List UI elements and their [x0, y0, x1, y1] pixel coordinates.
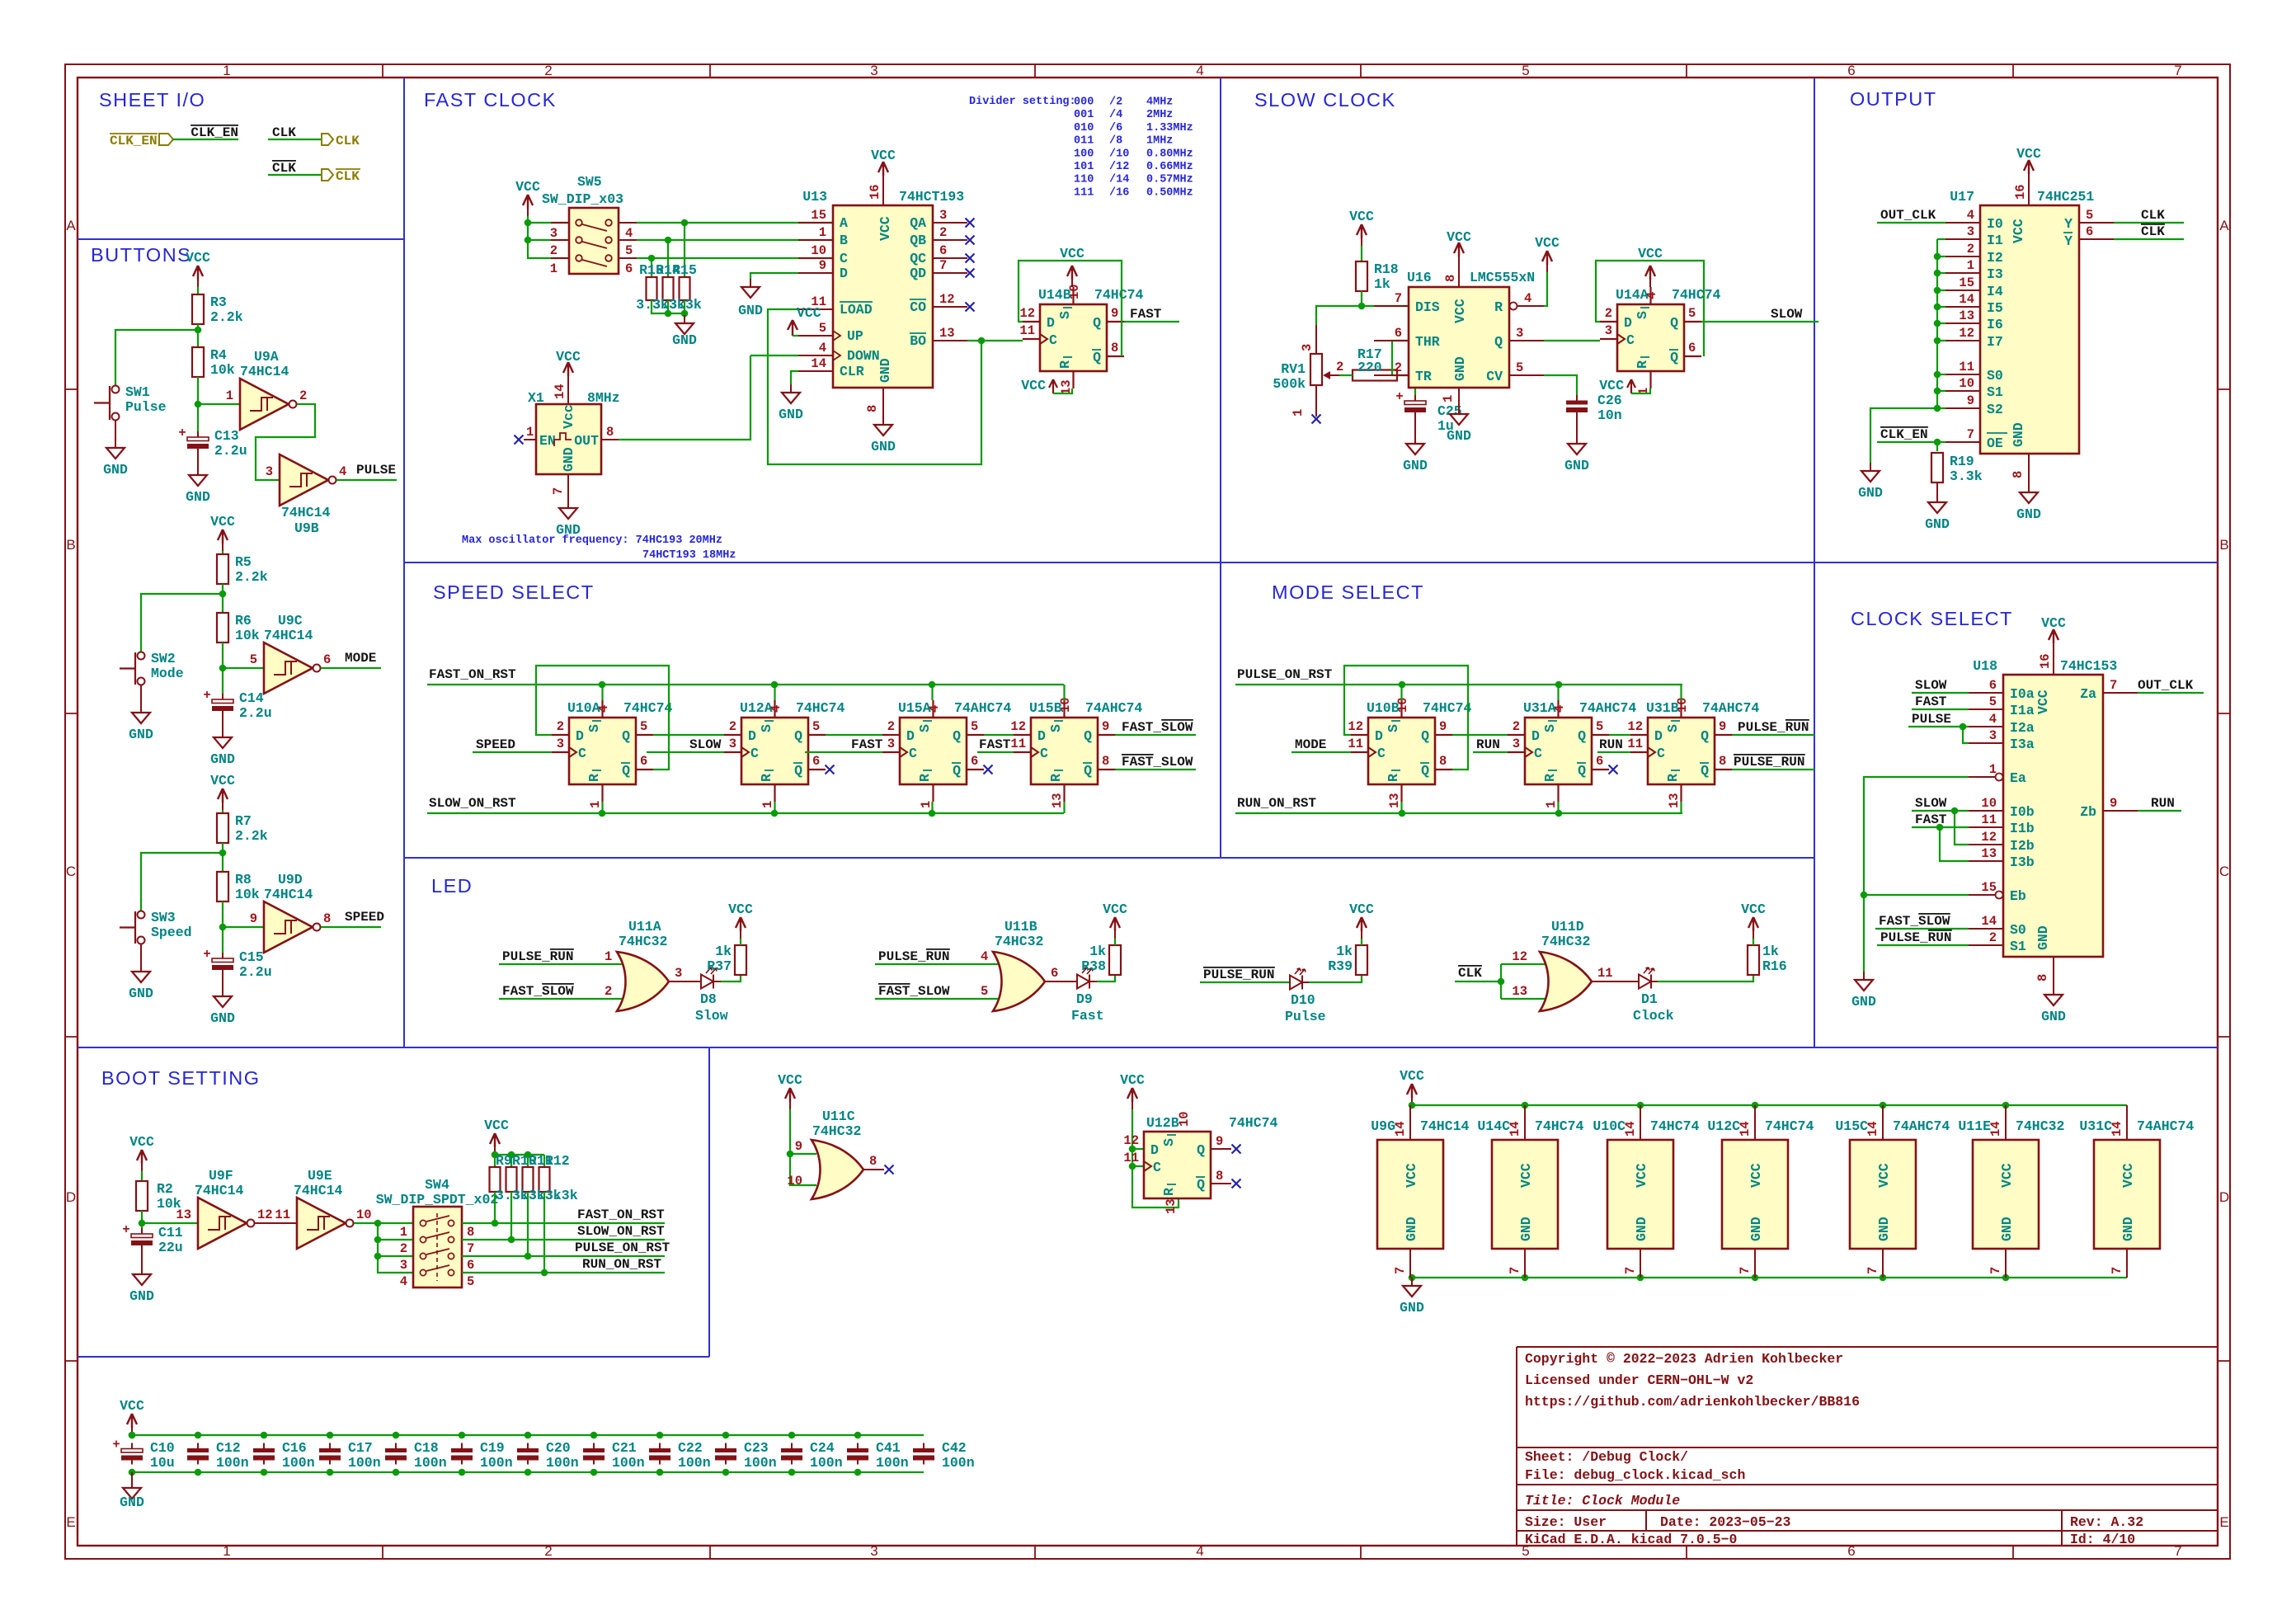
- svg-text:8: 8: [2035, 974, 2050, 981]
- svg-text:2.2k: 2.2k: [235, 828, 268, 844]
- title block frame: [1517, 1347, 2218, 1546]
- svg-text:OUT_CLK: OUT_CLK: [2138, 678, 2194, 693]
- svg-text:R3: R3: [210, 294, 227, 310]
- svg-text:9: 9: [1967, 393, 1974, 408]
- svg-text:74HCT193: 74HCT193: [899, 189, 964, 205]
- flip-flop U31B 74AHC74: [1648, 718, 1715, 784]
- svg-text:7: 7: [2110, 1267, 2124, 1274]
- svg-text:CO: CO: [910, 299, 926, 315]
- svg-text:I1b: I1b: [2010, 821, 2035, 836]
- svg-text:SPEED: SPEED: [476, 737, 515, 752]
- switch SW3 Speed: [138, 911, 145, 919]
- svg-text:74HC74: 74HC74: [796, 700, 845, 716]
- svg-text:CLK_EN: CLK_EN: [110, 134, 158, 148]
- svg-text:6: 6: [323, 652, 331, 667]
- svg-text:4: 4: [1196, 1543, 1203, 1559]
- X1 square wave glyph: [554, 433, 572, 446]
- svg-text:C: C: [1657, 746, 1665, 761]
- wire R17 to TR node: [1339, 374, 1353, 376]
- svg-text:Q: Q: [1197, 1177, 1205, 1193]
- svg-text:9: 9: [1719, 719, 1726, 734]
- svg-text:6: 6: [2086, 224, 2093, 239]
- svg-text:https://github.com/adrienkohlb: https://github.com/adrienkohlbecker/BB81…: [1525, 1394, 1860, 1410]
- svg-text:R5: R5: [235, 554, 252, 570]
- wire node to U9F input: [142, 1222, 198, 1224]
- svg-text:SW_DIP_SPDT_x02: SW_DIP_SPDT_x02: [376, 1192, 499, 1207]
- svg-text:Q: Q: [1670, 315, 1678, 331]
- svg-text:VCC: VCC: [1349, 209, 1374, 224]
- svg-text:12: 12: [1981, 830, 1997, 845]
- svg-text:PULSE_RUN: PULSE_RUN: [878, 949, 949, 964]
- svg-text:U10A: U10A: [567, 700, 600, 716]
- svg-text:C26: C26: [1597, 393, 1622, 408]
- svg-text:D: D: [840, 266, 848, 281]
- svg-text:4: 4: [1989, 712, 1997, 727]
- svg-text:/4: /4: [1109, 109, 1122, 121]
- svg-text:RUN: RUN: [1476, 737, 1500, 752]
- svg-text:R15: R15: [672, 262, 697, 278]
- svg-text:MODE SELECT: MODE SELECT: [1272, 581, 1424, 603]
- inverter U9E 74HC14: [297, 1198, 346, 1249]
- svg-text:3: 3: [870, 63, 877, 78]
- svg-text:C42: C42: [942, 1440, 967, 1456]
- IC U13 74HCT193 body: [833, 205, 933, 388]
- svg-text:Divider setting:: Divider setting:: [969, 96, 1076, 108]
- svg-text:VCC: VCC: [1638, 246, 1663, 261]
- svg-text:1k: 1k: [1762, 944, 1779, 959]
- svg-text:8: 8: [1102, 754, 1109, 769]
- wire SW5.4 to U13.A: [637, 222, 833, 224]
- svg-text:5: 5: [1688, 306, 1696, 321]
- wire U31A.Q to U31B.D: [1609, 734, 1630, 736]
- svg-text:I5: I5: [1987, 300, 2003, 316]
- ground at S2 bus: [1870, 463, 1871, 471]
- wire U9F out to U9E in: [255, 1222, 297, 1224]
- svg-text:3: 3: [1605, 323, 1612, 338]
- wire U9D output SPEED: [321, 926, 381, 928]
- svg-text:I2a: I2a: [2010, 720, 2035, 736]
- svg-text:FAST_SLOW: FAST_SLOW: [502, 984, 574, 999]
- svg-text:U12C: U12C: [1707, 1118, 1740, 1134]
- svg-text:8: 8: [323, 911, 331, 926]
- svg-text:C19: C19: [480, 1440, 505, 1456]
- U16 pin stubs: [1374, 305, 1409, 307]
- U17 left pins: [1945, 222, 1980, 224]
- svg-text:DIS: DIS: [1415, 299, 1440, 315]
- svg-text:74HC14: 74HC14: [264, 628, 313, 643]
- resistor R19: [1936, 442, 1938, 451]
- svg-text:74HC14: 74HC14: [240, 364, 289, 379]
- svg-text:11: 11: [1597, 966, 1613, 981]
- wire U14B.Q FAST: [1124, 321, 1179, 322]
- svg-text:Q: Q: [1701, 728, 1709, 744]
- svg-text:QB: QB: [910, 233, 926, 248]
- power unit U11E 74HC32: [1973, 1140, 2039, 1249]
- svg-text:GND: GND: [129, 1288, 154, 1304]
- svg-text:VCC: VCC: [210, 773, 235, 788]
- svg-text:U12A: U12A: [740, 700, 773, 716]
- svg-text:7: 7: [2174, 63, 2181, 78]
- svg-text:R: R: [1057, 360, 1073, 369]
- svg-text:6: 6: [1847, 63, 1855, 78]
- wire U18.Za OUT_CLK: [2138, 692, 2204, 694]
- svg-text:74HC74: 74HC74: [623, 700, 673, 716]
- wire U15B.Qbar ~FAST_SLOW: [1115, 769, 1196, 770]
- svg-text:QC: QC: [910, 251, 926, 266]
- flip-flop U10B 74HC74: [1368, 718, 1435, 784]
- power VCC at U13.UP: [788, 320, 797, 336]
- svg-text:9: 9: [2110, 796, 2117, 811]
- svg-text:14: 14: [553, 384, 567, 399]
- svg-text:C: C: [1626, 332, 1635, 348]
- svg-text:7: 7: [551, 487, 566, 495]
- svg-text:9: 9: [1216, 1134, 1223, 1149]
- SW5 pin stubs: [551, 222, 569, 224]
- wire U10A.Q to U12A.D: [653, 734, 724, 736]
- svg-text:CLR: CLR: [840, 364, 864, 379]
- svg-text:8: 8: [467, 1225, 474, 1240]
- svg-text:R39: R39: [1328, 958, 1353, 974]
- svg-text:CLK: CLK: [336, 134, 360, 148]
- svg-text:Licensed under CERN−OHL−W v2: Licensed under CERN−OHL−W v2: [1525, 1372, 1753, 1388]
- svg-text:D: D: [906, 728, 915, 744]
- svg-text:15: 15: [811, 208, 826, 223]
- svg-text:VCC: VCC: [778, 1072, 802, 1088]
- wire U9E out to SW4 bus: [354, 1222, 413, 1224]
- svg-text:RUN_ON_RST: RUN_ON_RST: [582, 1257, 661, 1272]
- power VCC above U14A: [1649, 280, 1651, 287]
- svg-text:U31A: U31A: [1523, 700, 1556, 716]
- power VCC above R9-R12: [494, 1147, 496, 1155]
- svg-text:Pulse: Pulse: [1285, 1009, 1326, 1024]
- svg-text:1: 1: [223, 1543, 230, 1559]
- wire U17.Ybar CLKbar: [2114, 238, 2184, 240]
- svg-text:S2: S2: [1987, 402, 2003, 417]
- wire X1.OUT to U13.DOWN: [619, 355, 750, 440]
- svg-text:RUN: RUN: [2151, 796, 2175, 811]
- U12A Qbar no-connect: [826, 765, 835, 774]
- svg-text:I0b: I0b: [2010, 804, 2035, 820]
- svg-text:12: 12: [1348, 719, 1363, 734]
- svg-text:RV1: RV1: [1281, 361, 1306, 377]
- power VCC above U12B: [1132, 1102, 1133, 1109]
- svg-text:100n: 100n: [282, 1455, 315, 1471]
- svg-text:Speed: Speed: [151, 925, 192, 940]
- svg-text:Sheet: /Debug Clock/: Sheet: /Debug Clock/: [1525, 1449, 1688, 1465]
- svg-text:CLK: CLK: [2141, 208, 2165, 223]
- svg-text:Size: User: Size: User: [1525, 1514, 1607, 1530]
- svg-text:BO: BO: [910, 333, 926, 349]
- svg-text:C: C: [909, 746, 917, 761]
- svg-text:SLOW_ON_RST: SLOW_ON_RST: [577, 1224, 665, 1239]
- svg-text:74HC74: 74HC74: [1765, 1118, 1814, 1134]
- svg-text:5: 5: [819, 321, 826, 336]
- svg-text:0.57MHz: 0.57MHz: [1146, 174, 1193, 186]
- power VCC at U14B reset: [1049, 379, 1057, 393]
- svg-text:FAST_SLOW: FAST_SLOW: [878, 984, 950, 999]
- svg-text:I2b: I2b: [2010, 838, 2035, 854]
- svg-text:Eb: Eb: [2010, 888, 2026, 904]
- svg-text:D: D: [2219, 1189, 2229, 1205]
- resistor R15: [684, 223, 685, 277]
- svg-text:5: 5: [467, 1274, 474, 1289]
- svg-text:3: 3: [1989, 728, 1997, 743]
- svg-text:U16: U16: [1407, 270, 1432, 285]
- power VCC at U14A reset: [1627, 379, 1635, 393]
- svg-text:C: C: [1377, 746, 1386, 761]
- svg-text:5: 5: [981, 984, 988, 999]
- svg-text:5: 5: [625, 243, 633, 258]
- svg-text:PULSE_ON_RST: PULSE_ON_RST: [575, 1240, 670, 1255]
- U13 right pin stubs: [933, 222, 967, 224]
- svg-text:R: R: [586, 774, 602, 782]
- svg-text:6: 6: [939, 243, 947, 258]
- svg-text:VCC: VCC: [2011, 219, 2026, 243]
- svg-text:11: 11: [275, 1207, 290, 1222]
- svg-text:16: 16: [868, 184, 882, 200]
- svg-text:C21: C21: [612, 1440, 637, 1456]
- wire RUN_ON_RST bus: [1235, 812, 1682, 814]
- svg-text:PULSE_RUN: PULSE_RUN: [1734, 755, 1804, 770]
- U17 VCC pin 16 top: [2028, 181, 2030, 205]
- svg-text:SW1: SW1: [125, 384, 150, 400]
- svg-text:C13: C13: [214, 428, 239, 444]
- svg-text:100n: 100n: [612, 1455, 645, 1471]
- svg-text:3: 3: [1513, 737, 1520, 751]
- svg-text:+: +: [203, 688, 210, 703]
- wire U13.D to GND: [750, 273, 798, 279]
- power VCC above U14B: [1071, 280, 1073, 287]
- wire CLK: [268, 139, 322, 140]
- wire R13-R15 bottoms to GND: [652, 300, 685, 313]
- svg-text:B: B: [2219, 537, 2228, 553]
- svg-text:10: 10: [1959, 376, 1974, 391]
- svg-text:10: 10: [811, 243, 826, 258]
- X1 GND pin 7 bottom: [567, 474, 569, 500]
- svg-text:D: D: [1654, 728, 1663, 744]
- svg-text:1: 1: [400, 1225, 407, 1240]
- svg-text:R19: R19: [1950, 454, 1974, 469]
- svg-text:D: D: [1624, 315, 1632, 331]
- svg-text:100n: 100n: [942, 1455, 975, 1471]
- svg-text:VCC: VCC: [1103, 901, 1127, 917]
- svg-text:U9B: U9B: [294, 520, 319, 536]
- wire R3 to R4 node: [197, 324, 199, 351]
- svg-text:Q: Q: [1084, 763, 1092, 779]
- wire node to SW1: [115, 330, 198, 385]
- U12B Q/Qbar no-connects: [1211, 1148, 1231, 1150]
- power VCC above R16: [1753, 939, 1754, 945]
- svg-text:8: 8: [869, 1154, 877, 1169]
- svg-text:5: 5: [250, 652, 257, 667]
- ground at U13.D: [750, 279, 751, 287]
- svg-text:74HC14: 74HC14: [195, 1183, 244, 1198]
- svg-text:5: 5: [812, 719, 820, 734]
- svg-text:74HC14: 74HC14: [281, 505, 331, 520]
- U11C output no-connect: [863, 1169, 884, 1170]
- ground below C26: [1576, 417, 1578, 435]
- IC U18 74HC153 body: [2003, 675, 2103, 957]
- ground at power pins row: [1411, 1278, 1413, 1286]
- flip-flop U12A 74HC74: [741, 718, 808, 784]
- svg-text:2: 2: [1605, 306, 1612, 321]
- svg-text:2: 2: [1336, 360, 1343, 374]
- svg-text:CLK: CLK: [1458, 966, 1482, 981]
- svg-text:3: 3: [400, 1258, 407, 1273]
- wire S2 to GND: [1870, 408, 1937, 463]
- svg-text:VCC: VCC: [1634, 1163, 1649, 1188]
- svg-text:U11B: U11B: [1004, 919, 1037, 934]
- svg-text:C41: C41: [876, 1440, 901, 1456]
- wire D10 to R39: [1302, 981, 1309, 983]
- svg-text:D: D: [66, 1189, 76, 1205]
- OR gate U11A 74HC32: [617, 952, 669, 1011]
- svg-text:2: 2: [605, 984, 612, 999]
- svg-text:Q: Q: [1093, 350, 1101, 365]
- svg-text:74HC251: 74HC251: [2037, 189, 2094, 205]
- svg-text:GND: GND: [1858, 485, 1883, 501]
- svg-text:12: 12: [257, 1207, 273, 1222]
- wire U13.DOWN from X1.OUT: [750, 355, 798, 356]
- svg-text:1: 1: [226, 388, 233, 403]
- svg-text:PULSE: PULSE: [1912, 712, 1951, 727]
- svg-text:RUN_ON_RST: RUN_ON_RST: [1237, 796, 1316, 811]
- svg-text:CLK: CLK: [272, 125, 296, 140]
- svg-text:74HC32: 74HC32: [1541, 934, 1590, 949]
- svg-text:3: 3: [1967, 224, 1974, 239]
- svg-text:2.2u: 2.2u: [239, 705, 272, 721]
- svg-text:I3: I3: [1987, 266, 2003, 282]
- svg-text:BUTTONS: BUTTONS: [91, 244, 191, 266]
- svg-text:74AHC74: 74AHC74: [954, 700, 1011, 716]
- svg-text:KiCad E.D.A. kicad 7.0.5−0: KiCad E.D.A. kicad 7.0.5−0: [1525, 1532, 1737, 1547]
- OR gate U11D 74HC32: [1540, 952, 1592, 1011]
- wire VCC bus for power pins: [1412, 1104, 2127, 1106]
- capacitor C41: [857, 1443, 859, 1449]
- SW4 input bus wire: [378, 1223, 413, 1273]
- svg-text:VCC: VCC: [1518, 1163, 1534, 1188]
- svg-text:CLK: CLK: [336, 169, 360, 184]
- svg-text:10: 10: [1981, 796, 1997, 811]
- svg-text:R6: R6: [235, 613, 252, 628]
- svg-text:2.2k: 2.2k: [210, 309, 243, 325]
- svg-text:5: 5: [1516, 360, 1523, 375]
- svg-text:0.80MHz: 0.80MHz: [1146, 148, 1193, 160]
- svg-text:Ea: Ea: [2010, 770, 2026, 786]
- ground below C10: [131, 1472, 133, 1480]
- svg-text:100n: 100n: [876, 1455, 909, 1471]
- svg-text:D: D: [1375, 728, 1383, 744]
- svg-text:SW2: SW2: [151, 651, 176, 666]
- svg-text:74HC14: 74HC14: [294, 1183, 343, 1198]
- svg-text:U13: U13: [802, 189, 827, 205]
- svg-text:1: 1: [223, 63, 230, 78]
- X1 VCC pin 14 top: [567, 384, 569, 404]
- svg-text:R37: R37: [707, 958, 732, 974]
- svg-text:11: 11: [1348, 737, 1363, 751]
- U13 VCC pin 16 top: [882, 183, 884, 205]
- svg-text:R: R: [1048, 774, 1064, 782]
- power unit U31C 74AHC74: [2094, 1140, 2160, 1249]
- svg-text:GND: GND: [738, 303, 763, 318]
- svg-text:FAST: FAST: [979, 737, 1011, 752]
- svg-text:GND: GND: [1634, 1217, 1649, 1241]
- svg-text:11: 11: [1627, 737, 1643, 751]
- svg-text:Q: Q: [1197, 1142, 1205, 1158]
- power unit U9G 74HC14: [1377, 1140, 1443, 1249]
- svg-text:2.2u: 2.2u: [214, 443, 247, 459]
- ground below SW2: [140, 685, 142, 704]
- svg-text:7: 7: [1395, 291, 1402, 306]
- svg-text:GND: GND: [210, 751, 235, 767]
- svg-text:2: 2: [400, 1241, 407, 1256]
- svg-text:E: E: [2219, 1514, 2228, 1530]
- svg-text:4MHz: 4MHz: [1146, 96, 1173, 109]
- wire U11A output to D8: [669, 981, 700, 982]
- svg-text:GND: GND: [1400, 1300, 1424, 1316]
- svg-text:11: 11: [1010, 737, 1026, 751]
- svg-text:3: 3: [557, 737, 564, 751]
- svg-text:VCC: VCC: [1447, 229, 1471, 245]
- svg-text:S1: S1: [1987, 384, 2003, 400]
- svg-text:13: 13: [1981, 846, 1997, 861]
- wire U16.R to VCC: [1544, 272, 1547, 306]
- power VCC for R7: [222, 803, 223, 810]
- svg-text:13: 13: [1164, 1198, 1179, 1214]
- svg-text:1: 1: [919, 801, 934, 808]
- svg-text:LED: LED: [431, 875, 473, 897]
- svg-text:VCC: VCC: [120, 1398, 144, 1414]
- svg-text:VCC: VCC: [728, 901, 753, 917]
- svg-text:Fast: Fast: [1071, 1008, 1104, 1024]
- wire U14A.Q SLOW: [1701, 321, 1818, 322]
- svg-text:PULSE_RUN: PULSE_RUN: [1203, 967, 1274, 982]
- svg-text:LMC555xN: LMC555xN: [1470, 270, 1535, 285]
- svg-text:VCC: VCC: [1120, 1072, 1145, 1088]
- svg-text:C14: C14: [239, 690, 264, 706]
- svg-text:10: 10: [1177, 1111, 1192, 1127]
- svg-text:FAST_ON_RST: FAST_ON_RST: [429, 667, 516, 682]
- svg-text:U9G: U9G: [1371, 1118, 1395, 1134]
- svg-text:C: C: [578, 746, 586, 761]
- svg-text:R: R: [1665, 774, 1681, 782]
- svg-text:Y: Y: [2064, 216, 2073, 232]
- svg-text:74AHC74: 74AHC74: [1579, 700, 1636, 716]
- svg-text:1: 1: [1967, 258, 1974, 273]
- wire R8 to U9D input node: [223, 901, 264, 927]
- svg-text:4: 4: [981, 949, 988, 964]
- svg-text:/10: /10: [1109, 148, 1129, 160]
- svg-text:10u: 10u: [150, 1455, 175, 1471]
- ground below C14: [222, 715, 223, 729]
- svg-text:74HC74: 74HC74: [1229, 1115, 1278, 1131]
- svg-text:U14B: U14B: [1038, 287, 1071, 303]
- svg-text:GND: GND: [2011, 422, 2026, 447]
- svg-text:R16: R16: [1762, 958, 1787, 974]
- U18 VCC pin 16 top: [2053, 651, 2054, 675]
- ground at U13.CLR: [790, 384, 792, 393]
- svg-text:6: 6: [467, 1258, 474, 1273]
- svg-text:2.2k: 2.2k: [235, 569, 268, 585]
- U13 UP/DOWN clock arrows: [833, 331, 840, 360]
- svg-text:D: D: [576, 728, 584, 744]
- ground below R15: [684, 315, 685, 323]
- svg-text:6: 6: [1688, 341, 1696, 355]
- flip-flop U31A 74AHC74: [1525, 718, 1592, 784]
- svg-text:3: 3: [266, 464, 273, 479]
- svg-text:100n: 100n: [216, 1455, 249, 1471]
- svg-text:2.2u: 2.2u: [239, 964, 272, 980]
